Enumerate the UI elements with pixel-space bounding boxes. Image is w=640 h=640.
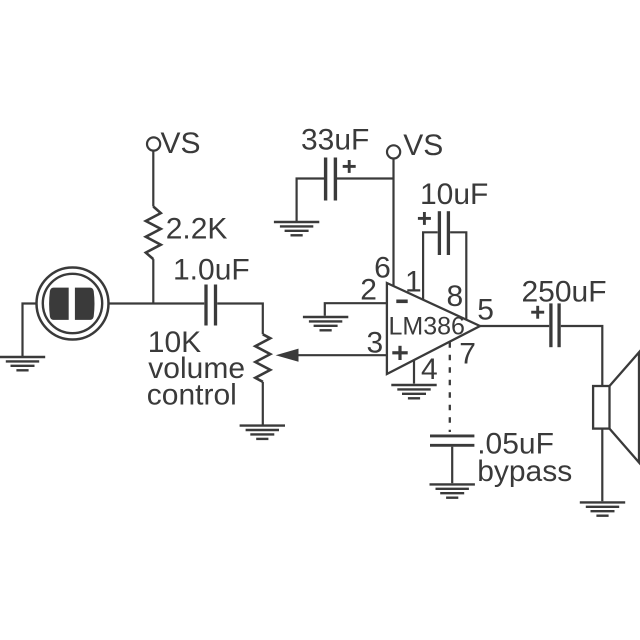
plus input mark: [392, 346, 407, 360]
wire resistor to input node: [152, 259, 154, 303]
wire mic to capacitor 1.0uF: [109, 302, 205, 304]
wire pot to ground: [262, 382, 264, 425]
wire speaker to ground: [601, 429, 603, 502]
pin 7 dashed wire: [449, 342, 451, 432]
minus input mark: [396, 299, 407, 303]
wire pin 5 output: [480, 325, 549, 327]
wire wiper to pin 3: [297, 354, 387, 356]
svg-text:VS: VS: [161, 127, 201, 160]
capacitor C3 10uF: [439, 211, 448, 255]
wire 10uF to pin 8: [450, 232, 466, 319]
plus mark 250uF: [531, 306, 544, 319]
plus mark 10uF: [418, 212, 431, 225]
wire pin 2 to ground: [325, 303, 387, 316]
ground (speaker): [580, 502, 625, 515]
svg-text:2: 2: [360, 274, 377, 307]
svg-text:control: control: [147, 379, 237, 412]
capacitor C5 250uF: [551, 303, 559, 347]
svg-text:1: 1: [405, 265, 422, 298]
svg-text:VS: VS: [403, 129, 443, 162]
svg-text:4: 4: [421, 353, 438, 386]
svg-text:2.2K: 2.2K: [166, 213, 228, 246]
resistor 2.2K: [146, 207, 161, 260]
svg-text:7: 7: [459, 338, 476, 371]
capacitor C2 33uF: [326, 158, 336, 201]
wire C1 to potentiometer: [217, 304, 263, 335]
svg-text:bypass: bypass: [477, 455, 572, 488]
speaker SPK1: [593, 352, 639, 462]
plus mark 33uF: [343, 160, 356, 173]
microphone MIC1: [37, 268, 109, 340]
wire 250uF to speaker: [561, 326, 603, 386]
wire mic left to ground: [23, 304, 37, 357]
terminal VS1: [147, 137, 160, 150]
ground (pin 2): [303, 317, 348, 330]
capacitor C1 1.0uF: [206, 285, 216, 326]
terminal VS2: [387, 145, 400, 158]
wire 33uF right to VS node: [337, 177, 394, 179]
wire bypass cap to ground: [451, 447, 453, 484]
ground (microphone): [0, 357, 45, 370]
wire pin 4 to ground: [413, 360, 415, 383]
wire VS1 to resistor: [152, 151, 154, 207]
svg-text:8: 8: [447, 280, 464, 313]
svg-text:5: 5: [477, 293, 494, 326]
capacitor C4 .05uF bypass: [430, 436, 474, 445]
wire 33uF left to ground: [297, 179, 324, 222]
pot wiper arrowhead: [276, 349, 299, 362]
svg-text:1.0uF: 1.0uF: [173, 253, 250, 286]
potentiometer 10K: [255, 334, 270, 382]
ground (potentiometer): [240, 426, 285, 439]
ground (pin 4): [391, 385, 436, 398]
svg-text:10uF: 10uF: [420, 178, 488, 211]
wire VS2 to pin 6: [392, 159, 394, 287]
wire 10uF to pin 1: [423, 232, 438, 300]
ground (33uF): [274, 222, 319, 235]
svg-text:33uF: 33uF: [301, 124, 369, 157]
svg-text:LM386: LM386: [389, 313, 465, 341]
op-amp U1 LM386: [387, 283, 480, 374]
svg-text:3: 3: [367, 327, 384, 360]
svg-text:250uF: 250uF: [522, 276, 607, 309]
ground (bypass): [430, 484, 475, 497]
